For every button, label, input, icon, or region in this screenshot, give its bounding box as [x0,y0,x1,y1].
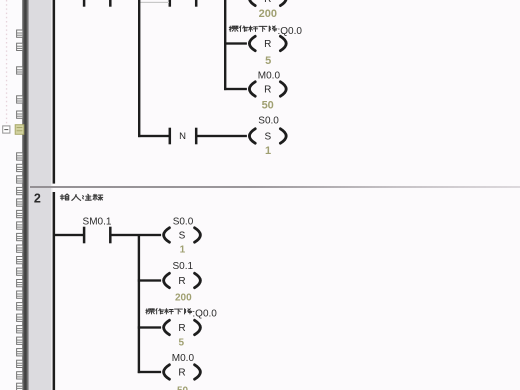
svg-text:1: 1 [180,244,186,255]
svg-text:R: R [178,323,185,334]
svg-text:S: S [179,231,186,242]
svg-text:2: 2 [34,192,41,206]
svg-text:R: R [178,368,185,379]
svg-text:5: 5 [265,55,271,67]
svg-text:R: R [264,0,271,5]
svg-text:R: R [264,39,271,50]
svg-text:50: 50 [262,100,274,112]
svg-text:N: N [179,131,186,142]
svg-text:1: 1 [265,145,271,157]
svg-text:M0.0: M0.0 [172,353,195,364]
svg-text:S0.0: S0.0 [173,216,194,227]
svg-text::Q0.0: :Q0.0 [192,309,217,320]
svg-text:S: S [264,132,271,143]
svg-text:SM0.1: SM0.1 [83,216,112,227]
svg-text:5: 5 [179,338,185,349]
svg-text:200: 200 [175,293,192,304]
svg-text:200: 200 [259,8,277,20]
svg-text:R: R [264,85,271,96]
svg-text:R: R [178,276,185,287]
svg-text:S0.1: S0.1 [173,261,194,272]
svg-text:50: 50 [177,386,189,390]
svg-text:S0.0: S0.0 [258,115,279,126]
svg-text:M0.0: M0.0 [258,71,281,82]
